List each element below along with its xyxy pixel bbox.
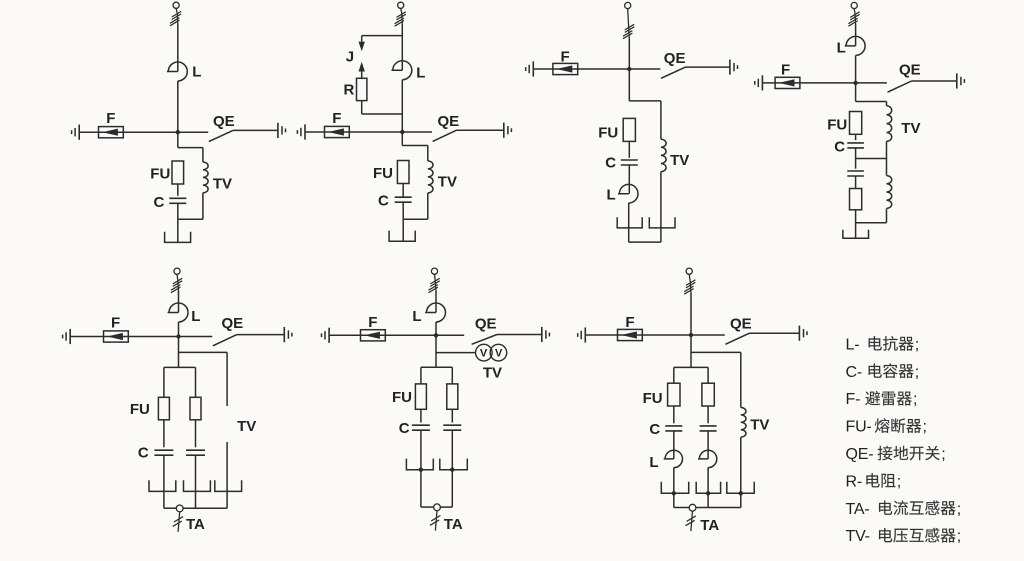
earthing switch QE blade	[725, 333, 749, 344]
reactor L1	[167, 62, 187, 81]
circuit 4 terminal	[851, 2, 857, 8]
earth electrode	[661, 482, 688, 494]
current transformer tap	[689, 504, 696, 511]
wire	[402, 219, 404, 241]
wire	[361, 36, 363, 42]
node	[176, 130, 180, 134]
wire	[362, 113, 403, 115]
wire	[762, 82, 855, 84]
svg-text:TV: TV	[670, 152, 689, 169]
svg-text:TA-: TA-	[846, 501, 870, 518]
earth electrode	[843, 230, 869, 239]
svg-text:F: F	[781, 62, 790, 79]
node	[176, 334, 180, 338]
wire	[164, 507, 176, 509]
arrester F	[618, 329, 643, 340]
wire	[436, 352, 476, 354]
ground	[304, 124, 306, 139]
wire	[886, 208, 888, 222]
wire	[856, 82, 887, 84]
wire	[233, 129, 278, 131]
earth electrode	[406, 459, 433, 470]
svg-text:C: C	[138, 445, 149, 462]
capacitor C7b	[700, 425, 717, 427]
spark gap J	[359, 42, 365, 52]
wire	[686, 66, 730, 68]
arrester F	[553, 63, 578, 74]
wire	[451, 430, 453, 507]
node	[400, 130, 404, 134]
circuit 1 terminal	[173, 2, 179, 8]
wire	[178, 291, 180, 313]
line break mark	[686, 280, 695, 286]
wire	[707, 406, 709, 423]
earthing switch QE blade	[209, 130, 233, 141]
reactor L4	[845, 36, 865, 55]
earth electrode	[617, 217, 642, 228]
wire	[673, 367, 675, 383]
reactor L2	[391, 61, 411, 80]
wire	[401, 8, 402, 13]
wire	[886, 159, 888, 176]
node	[450, 468, 454, 472]
reactor L7a	[664, 450, 683, 467]
wire	[691, 334, 725, 336]
wire	[691, 351, 741, 353]
wire	[163, 367, 165, 397]
ground	[328, 328, 330, 343]
circuit 3 terminal	[625, 2, 631, 8]
node	[853, 81, 857, 85]
wire	[420, 409, 422, 422]
wire	[435, 322, 437, 367]
svg-text:QE: QE	[664, 50, 686, 67]
ground	[798, 326, 800, 341]
wire	[403, 218, 428, 220]
capacitor C5b	[186, 449, 205, 451]
wire	[163, 455, 165, 508]
wire	[855, 176, 857, 188]
reactor L7b	[698, 450, 717, 467]
svg-text:TA: TA	[444, 516, 463, 533]
capacitor C1	[169, 197, 186, 199]
wire	[451, 367, 453, 384]
ground	[584, 327, 586, 342]
voltage transformer TV winding 2	[887, 176, 892, 209]
wire	[855, 134, 857, 140]
wire	[856, 222, 887, 224]
fuse FU5b	[190, 397, 201, 420]
wire	[427, 193, 429, 219]
svg-text:;: ;	[957, 528, 961, 545]
wire	[886, 102, 888, 106]
wire	[402, 202, 404, 219]
wire	[177, 219, 179, 242]
wire	[434, 274, 437, 280]
svg-text:FU: FU	[392, 389, 412, 406]
svg-text:;: ;	[957, 501, 961, 518]
svg-text:F-: F-	[846, 391, 861, 408]
svg-text:F: F	[106, 110, 115, 127]
wire	[440, 506, 452, 508]
wire	[673, 431, 675, 459]
wire	[195, 367, 197, 397]
wire	[855, 148, 857, 159]
node	[627, 67, 631, 71]
earth electrode	[440, 459, 468, 470]
svg-text:;: ;	[915, 364, 919, 381]
line break mark	[430, 278, 439, 284]
wire	[673, 468, 675, 508]
arrester F	[775, 77, 800, 88]
TA pigtail	[178, 512, 180, 532]
svg-text:L: L	[192, 64, 201, 81]
svg-text:C: C	[605, 154, 616, 171]
wire	[627, 9, 630, 26]
reactor L6	[425, 303, 445, 322]
wire	[855, 223, 857, 239]
svg-text:;: ;	[923, 419, 927, 436]
ground	[541, 327, 543, 342]
svg-text:TV: TV	[237, 418, 256, 435]
wire	[660, 172, 662, 243]
earth electrode	[727, 482, 754, 494]
svg-text:QE: QE	[475, 316, 497, 333]
svg-text:F: F	[625, 314, 634, 331]
wire	[361, 72, 363, 79]
wire	[70, 336, 178, 338]
fuse FU7b	[702, 383, 714, 406]
arrester F	[325, 126, 350, 137]
wire	[176, 8, 177, 13]
svg-text:FU: FU	[150, 166, 170, 183]
arrester F	[99, 127, 124, 138]
svg-text:FU-: FU-	[846, 419, 872, 436]
wire	[855, 24, 857, 46]
wire	[401, 24, 403, 70]
svg-text:QE: QE	[899, 62, 921, 79]
fuse FU6b	[447, 384, 458, 409]
wire	[427, 146, 429, 161]
wire	[402, 184, 404, 198]
wire	[195, 420, 197, 448]
svg-text:L: L	[649, 454, 658, 471]
line break mark	[850, 12, 859, 18]
svg-text:TV: TV	[213, 176, 232, 193]
wire	[856, 158, 887, 160]
wire	[674, 507, 689, 509]
svg-text:;: ;	[915, 336, 919, 353]
circuit 2 terminal	[398, 2, 404, 8]
wire	[689, 274, 690, 281]
circuit 6 terminal	[431, 268, 437, 274]
wire	[421, 366, 452, 368]
svg-text:F: F	[332, 110, 341, 127]
wire	[401, 80, 403, 146]
node	[706, 491, 710, 495]
wire	[585, 334, 691, 336]
capacitor C4a	[847, 142, 864, 144]
wire	[855, 55, 857, 101]
wire	[707, 431, 709, 459]
wire	[226, 442, 228, 508]
voltage transformer TV winding	[741, 408, 746, 438]
voltage transformer TV winding	[203, 162, 208, 193]
capacitor C6a	[412, 424, 430, 426]
wire	[855, 210, 857, 223]
svg-text:R: R	[344, 81, 355, 98]
svg-text:C: C	[378, 192, 389, 209]
voltage transformer TV	[476, 344, 493, 361]
svg-text:V: V	[495, 347, 503, 359]
svg-text:C: C	[399, 420, 410, 437]
wire	[628, 38, 630, 101]
wire	[660, 101, 662, 139]
svg-text:V: V	[480, 347, 488, 359]
earth electrode	[149, 480, 176, 491]
wire	[79, 131, 178, 133]
ground	[78, 125, 80, 140]
wire	[178, 147, 203, 149]
node	[434, 333, 438, 337]
current transformer tap	[434, 504, 441, 511]
svg-text:;: ;	[913, 391, 917, 408]
wire	[202, 148, 204, 162]
wire	[179, 351, 228, 353]
svg-text:L: L	[607, 187, 616, 204]
fuse FU4b	[850, 189, 862, 210]
earth electrode	[389, 231, 415, 242]
svg-text:QE: QE	[213, 113, 235, 130]
circuit 7 terminal	[686, 268, 692, 274]
svg-text:L: L	[412, 308, 421, 325]
wire	[740, 352, 742, 407]
svg-text:TV: TV	[438, 174, 457, 191]
voltage transformer TV winding	[428, 161, 433, 193]
wire	[178, 322, 180, 367]
voltage transformer TV winding 1	[887, 106, 892, 142]
ground	[956, 73, 958, 88]
svg-text:QE: QE	[438, 113, 460, 130]
svg-text:TV: TV	[901, 120, 920, 137]
capacitor C7a	[665, 425, 682, 427]
wire	[690, 293, 692, 367]
fuse FU3	[623, 118, 635, 141]
wire	[457, 129, 504, 131]
fuse FU5a	[158, 397, 169, 420]
arrester F	[361, 330, 386, 341]
wire	[179, 336, 213, 338]
svg-text:TV-: TV-	[846, 528, 870, 545]
earth electrode	[649, 217, 675, 228]
line break mark	[173, 278, 182, 284]
wire	[402, 131, 432, 133]
svg-text:TA: TA	[700, 517, 719, 534]
wire	[912, 80, 957, 82]
capacitor C4b	[847, 170, 864, 172]
fuse FU4a	[850, 112, 862, 135]
svg-text:C-: C-	[846, 364, 862, 381]
fuse FU6a	[415, 384, 426, 409]
wire	[362, 35, 403, 37]
wire	[195, 455, 197, 508]
svg-text:L: L	[837, 40, 846, 57]
earth electrode	[165, 232, 191, 243]
svg-text:QE: QE	[730, 315, 752, 332]
svg-text:FU: FU	[827, 117, 847, 134]
line break mark	[396, 12, 405, 18]
wire	[707, 468, 709, 508]
capacitor C2	[395, 196, 412, 198]
svg-text:TV: TV	[483, 364, 502, 381]
svg-text:;: ;	[941, 446, 945, 463]
arrester F	[104, 331, 129, 342]
wire	[740, 437, 742, 507]
wire	[178, 218, 203, 220]
wire	[886, 141, 888, 158]
earthing switch QE blade	[661, 67, 686, 78]
wire	[435, 291, 437, 313]
line break mark	[625, 24, 634, 30]
svg-text:F: F	[111, 314, 120, 331]
resistor R	[357, 78, 367, 100]
wire	[202, 193, 204, 220]
svg-text:QE-: QE-	[846, 446, 874, 463]
earth electrode	[696, 482, 720, 494]
ground	[277, 123, 279, 138]
capacitor C5a	[154, 449, 173, 451]
svg-text:TA: TA	[186, 516, 205, 533]
earthing switch QE blade	[888, 81, 912, 92]
wire	[628, 165, 630, 194]
ground	[69, 329, 71, 344]
wire	[402, 145, 428, 147]
reactor L3	[618, 184, 638, 203]
capacitor C3	[621, 159, 638, 161]
svg-text:C: C	[154, 194, 165, 211]
reactor L5	[168, 303, 188, 322]
TA pigtail	[435, 511, 437, 531]
earthing switch QE blade	[433, 130, 457, 141]
wire	[183, 507, 227, 509]
wire	[178, 131, 208, 133]
earthing switch QE blade	[472, 335, 497, 345]
node	[419, 468, 423, 472]
svg-text:L: L	[416, 65, 425, 82]
wire	[237, 334, 284, 336]
fuse FU1	[172, 161, 184, 184]
earth electrode	[184, 480, 211, 491]
wire	[361, 101, 363, 114]
svg-text:R-: R-	[846, 473, 862, 490]
svg-text:C: C	[834, 138, 845, 155]
wire	[629, 100, 661, 102]
wire	[177, 24, 179, 72]
wire	[177, 203, 179, 219]
TA pigtail	[691, 511, 693, 531]
earth electrode	[215, 480, 242, 491]
ground	[503, 123, 505, 138]
wire	[226, 352, 228, 406]
wire	[674, 366, 708, 368]
node	[739, 491, 743, 495]
wire	[420, 430, 422, 507]
ground	[532, 61, 534, 76]
wire	[163, 420, 165, 448]
svg-text:QE: QE	[222, 315, 244, 332]
wire	[451, 409, 453, 422]
wire	[420, 367, 422, 384]
wire	[497, 334, 542, 336]
wire	[305, 131, 402, 133]
svg-text:FU: FU	[598, 125, 618, 142]
svg-text:F: F	[368, 314, 377, 331]
wire	[853, 9, 856, 14]
wire	[629, 241, 661, 243]
wire	[629, 68, 660, 70]
fuse FU7a	[668, 383, 680, 406]
svg-text:C: C	[649, 421, 660, 438]
node	[689, 333, 693, 337]
current transformer tap	[176, 505, 183, 512]
ground	[761, 75, 763, 90]
wire	[696, 507, 741, 509]
fuse FU2	[397, 161, 409, 184]
wire	[673, 406, 675, 423]
capacitor C6b	[443, 424, 461, 426]
wire	[176, 274, 179, 280]
wire	[707, 367, 709, 383]
wire	[628, 203, 630, 242]
svg-text:FU: FU	[373, 165, 393, 182]
wire	[177, 81, 179, 148]
earthing switch QE blade	[213, 335, 237, 346]
svg-text:L-: L-	[846, 336, 860, 353]
ground	[283, 327, 285, 342]
wire	[855, 159, 857, 169]
line break mark	[172, 11, 181, 17]
wire	[628, 141, 630, 158]
wire	[856, 101, 887, 103]
wire	[164, 366, 196, 368]
svg-text:FU: FU	[130, 401, 150, 418]
wire	[533, 68, 629, 70]
svg-text:J: J	[346, 49, 354, 66]
svg-text:FU: FU	[643, 390, 663, 407]
voltage transformer TV winding	[661, 139, 666, 171]
svg-text:L: L	[191, 308, 200, 325]
wire	[177, 184, 179, 196]
circuit 5 terminal	[174, 268, 180, 274]
node	[672, 491, 676, 495]
wire	[749, 332, 799, 334]
svg-text:;: ;	[897, 473, 901, 490]
wire	[436, 334, 464, 336]
wire	[421, 506, 434, 508]
ground	[729, 60, 731, 75]
svg-text:F: F	[561, 49, 570, 66]
svg-text:TV: TV	[750, 416, 769, 433]
wire	[329, 334, 436, 336]
